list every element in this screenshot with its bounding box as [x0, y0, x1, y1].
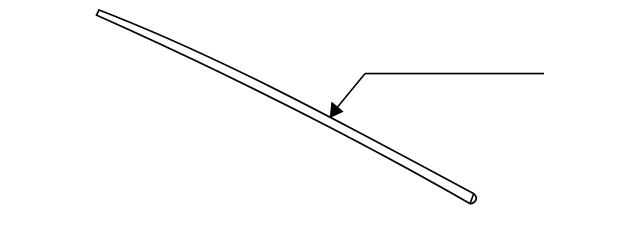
molding strip right end cap inner chord: [470, 194, 473, 203]
molding strip bottom edge: [97, 15, 471, 204]
arrowhead: [330, 103, 343, 118]
leader line horizontal segment: [365, 73, 544, 75]
molding strip left end cap: [97, 10, 100, 15]
molding strip right end cap outer arc: [470, 194, 476, 204]
molding strip top edge: [99, 10, 474, 194]
leader line diagonal segment: [336, 74, 365, 109]
